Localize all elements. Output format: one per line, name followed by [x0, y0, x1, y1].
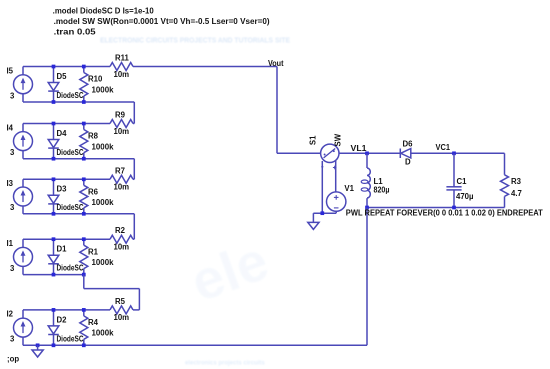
svg-text:DiodeSC: DiodeSC: [57, 91, 84, 100]
svg-text:D4: D4: [57, 129, 68, 138]
svg-text:820µ: 820µ: [374, 186, 390, 195]
svg-text:;op: ;op: [7, 354, 19, 363]
svg-text:4.7: 4.7: [511, 189, 522, 198]
svg-text:D: D: [405, 157, 411, 166]
svg-text:DiodeSC: DiodeSC: [57, 148, 84, 157]
svg-text:I3: I3: [7, 179, 14, 188]
svg-text:D3: D3: [57, 185, 68, 194]
svg-text:R7: R7: [115, 166, 125, 175]
svg-text:ELECTRONIC CIRCUITS PROJECTS A: ELECTRONIC CIRCUITS PROJECTS AND TUTORIA…: [100, 36, 290, 45]
svg-text:R5: R5: [115, 297, 126, 306]
svg-text:VL1: VL1: [351, 144, 368, 153]
svg-text:3: 3: [10, 335, 15, 344]
svg-text:D1: D1: [57, 245, 68, 254]
svg-text:.model SW SW(Ron=0.0001 Vt=0 V: .model SW SW(Ron=0.0001 Vt=0 Vh=-0.5 Lse…: [54, 17, 270, 26]
svg-text:electronics projects circuits: electronics projects circuits: [185, 361, 265, 367]
svg-text:R9: R9: [115, 111, 126, 120]
svg-text:R3: R3: [511, 177, 522, 186]
svg-text:DiodeSC: DiodeSC: [57, 334, 84, 343]
svg-text:R4: R4: [88, 318, 99, 327]
svg-text:1000k: 1000k: [92, 142, 115, 151]
svg-text:3: 3: [10, 148, 15, 157]
svg-text:D6: D6: [403, 139, 414, 148]
svg-text:R6: R6: [88, 188, 99, 197]
svg-text:1000k: 1000k: [92, 198, 115, 207]
svg-text:3: 3: [10, 264, 15, 273]
svg-text:470µ: 470µ: [456, 192, 474, 201]
svg-text:DiodeSC: DiodeSC: [57, 203, 84, 212]
svg-text:R2: R2: [115, 226, 126, 235]
svg-text:I2: I2: [7, 310, 14, 319]
svg-text:R1: R1: [88, 247, 99, 256]
svg-text:1000k: 1000k: [92, 85, 115, 94]
svg-text:R11: R11: [115, 54, 130, 63]
svg-text:1000k: 1000k: [92, 258, 115, 267]
svg-text:3: 3: [10, 203, 15, 212]
svg-text:10m: 10m: [114, 313, 130, 322]
svg-text:R8: R8: [88, 132, 99, 141]
svg-text:I1: I1: [7, 239, 14, 248]
svg-text:V1: V1: [344, 184, 354, 193]
svg-text:I5: I5: [7, 66, 14, 75]
svg-text:DiodeSC: DiodeSC: [57, 264, 84, 273]
svg-text:3: 3: [10, 91, 15, 100]
svg-text:D2: D2: [57, 315, 68, 324]
svg-text:R10: R10: [88, 75, 103, 84]
svg-text:1000k: 1000k: [92, 329, 115, 338]
svg-text:10m: 10m: [114, 127, 130, 136]
svg-text:.tran 0.05: .tran 0.05: [54, 27, 97, 36]
svg-text:10m: 10m: [114, 70, 130, 79]
svg-text:SW: SW: [333, 133, 342, 146]
svg-text:S1: S1: [309, 135, 318, 145]
svg-text:10m: 10m: [114, 183, 130, 192]
svg-text:I4: I4: [7, 123, 14, 132]
svg-text:.model DiodeSC D Is=1e-10: .model DiodeSC D Is=1e-10: [53, 7, 155, 16]
svg-text:D5: D5: [57, 72, 68, 81]
svg-text:C1: C1: [457, 177, 468, 186]
svg-text:VC1: VC1: [436, 143, 451, 152]
svg-text:Vout: Vout: [268, 59, 284, 68]
svg-text:10m: 10m: [114, 243, 130, 252]
svg-text:PWL REPEAT FOREVER(0 0 0.01 1: PWL REPEAT FOREVER(0 0 0.01 1 0.02 0) EN…: [346, 208, 543, 217]
